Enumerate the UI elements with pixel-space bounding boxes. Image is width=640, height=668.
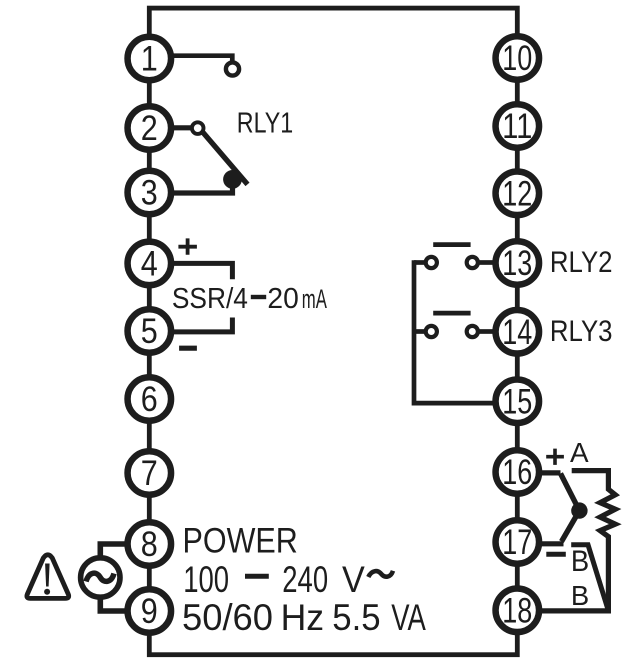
svg-text:100: 100 — [183, 559, 229, 600]
svg-text:V: V — [342, 559, 365, 600]
terminal 18 — [496, 589, 540, 633]
RLY2 contact bar — [433, 242, 470, 247]
svg-text:POWER: POWER — [183, 521, 298, 561]
wire B from terminal 17 to bottom corner — [571, 545, 608, 610]
terminal 3 — [128, 171, 172, 215]
terminal 15 — [496, 379, 540, 423]
terminal 17 — [496, 520, 540, 564]
AC source symbol circle — [81, 558, 120, 597]
RLY2 right contact circle — [467, 257, 478, 268]
wire terminal 1 to open contact — [172, 56, 232, 61]
svg-text:A: A — [570, 437, 589, 468]
exclamation bar — [45, 564, 50, 587]
wire RLY2 left contact to vertical bus — [414, 260, 425, 265]
svg-text:B: B — [571, 580, 589, 611]
exclamation dot — [44, 589, 50, 595]
terminal 12 — [496, 172, 540, 216]
RLY3 right contact circle — [467, 326, 478, 337]
svg-text:10: 10 — [502, 38, 532, 78]
svg-text:11: 11 — [502, 106, 532, 146]
terminal 8 — [128, 522, 172, 566]
svg-text:17: 17 — [502, 522, 532, 562]
svg-text:VA: VA — [391, 597, 426, 638]
wire AC source to terminal 8 — [100, 544, 125, 556]
terminal 11 — [496, 104, 540, 148]
svg-text:14: 14 — [502, 312, 532, 352]
svg-text:15: 15 — [502, 381, 532, 421]
svg-text:RLY3: RLY3 — [550, 315, 613, 348]
svg-text:240: 240 — [282, 559, 328, 600]
contact open circle at terminal 1 wire — [226, 62, 239, 75]
minus sign terminal 5 — [179, 346, 197, 351]
terminal 5 — [128, 309, 172, 353]
svg-text:mA: mA — [302, 284, 327, 314]
svg-text:1: 1 — [141, 39, 158, 79]
minus sign terminal 17 — [546, 552, 566, 557]
svg-text:13: 13 — [502, 243, 532, 283]
dash in SSR/4-20mA label — [251, 295, 266, 299]
svg-text:B: B — [571, 545, 589, 578]
wire contact bus to terminal 15 — [414, 260, 494, 403]
terminal 16 — [496, 450, 540, 494]
terminal 14 — [496, 310, 540, 354]
terminal 9 — [128, 589, 172, 633]
terminal 10 — [496, 36, 540, 80]
wire RLY3 left contact to vertical bus — [414, 329, 425, 334]
svg-text:3: 3 — [141, 173, 158, 213]
wire device outline rectangle — [149, 8, 517, 655]
svg-text:RLY2: RLY2 — [550, 246, 613, 279]
svg-text:9: 9 — [141, 591, 158, 631]
terminal 13 — [496, 241, 540, 285]
svg-text:5: 5 — [141, 311, 158, 351]
svg-text:5.5: 5.5 — [332, 597, 380, 638]
svg-text:16: 16 — [502, 452, 532, 492]
resistor RTD with A lead and B lead to terminal 18 — [540, 471, 615, 611]
sensor blade lower — [562, 511, 580, 542]
svg-text:20: 20 — [267, 283, 298, 315]
RLY3 contact bar — [433, 311, 470, 316]
svg-text:18: 18 — [502, 591, 532, 631]
svg-text:Hz: Hz — [281, 597, 325, 638]
RLY2 left contact circle — [426, 257, 437, 268]
wire terminal 5 bracket — [174, 318, 233, 332]
terminal 4 — [128, 242, 172, 286]
switch blade RLY1 — [202, 132, 247, 185]
svg-text:2: 2 — [141, 108, 158, 148]
terminal 7 — [128, 451, 172, 495]
wire RLY3 right contact to terminal 14 — [479, 329, 495, 334]
tilde after V in 240V~ — [368, 571, 393, 577]
svg-text:7: 7 — [141, 453, 158, 493]
warning triangle — [27, 555, 69, 599]
sensor blade upper — [561, 474, 580, 511]
wire terminal 16 stub — [540, 470, 561, 475]
plus sign terminal 16 — [546, 449, 564, 465]
junction dot RLY1 — [223, 170, 242, 189]
RLY3 left contact circle — [426, 326, 437, 337]
svg-text:6: 6 — [141, 379, 158, 419]
wire RLY2 right contact to terminal 13 — [479, 260, 495, 265]
terminal 1 — [128, 37, 172, 81]
terminal 6 — [128, 377, 172, 421]
wire terminal 2 to RLY1 contact — [172, 125, 191, 130]
AC sine wave — [86, 573, 114, 581]
plus sign terminal 4 — [178, 238, 197, 254]
wire terminal 17 stub — [540, 541, 564, 546]
svg-text:4: 4 — [141, 244, 158, 284]
contact open circle RLY1 — [192, 122, 204, 134]
wire terminal 4 bracket — [172, 263, 232, 279]
svg-text:50/60: 50/60 — [182, 597, 273, 638]
wire AC source to terminal 9 — [100, 599, 125, 611]
dash in 100-240 label — [245, 574, 269, 579]
terminal 2 — [128, 106, 172, 150]
svg-text:12: 12 — [502, 174, 532, 214]
wire terminal 3 to dot — [172, 185, 232, 193]
svg-text:RLY1: RLY1 — [237, 108, 293, 140]
sensor junction dot — [571, 502, 587, 518]
svg-text:SSR/4: SSR/4 — [172, 283, 248, 315]
svg-text:8: 8 — [141, 524, 158, 564]
